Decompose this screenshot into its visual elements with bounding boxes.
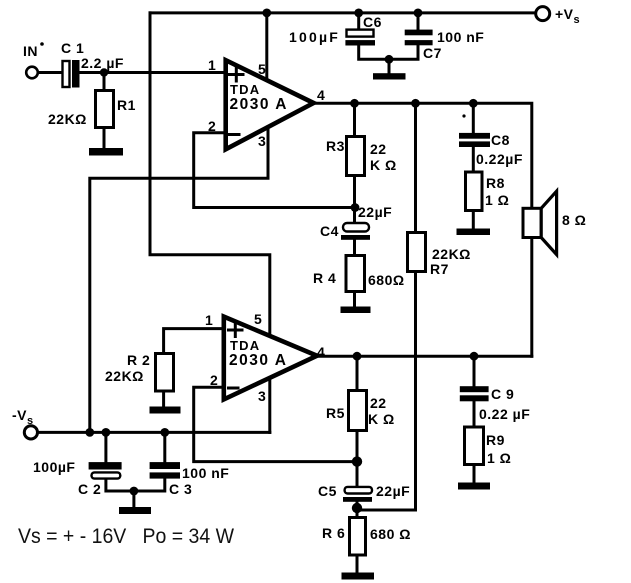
svg-text:8 Ω: 8 Ω (562, 212, 586, 228)
svg-text:R3: R3 (326, 138, 345, 154)
svg-text:22KΩ: 22KΩ (432, 246, 471, 262)
svg-text:C8: C8 (491, 132, 510, 148)
svg-text:2: 2 (208, 118, 216, 134)
svg-text:2030 A: 2030 A (230, 96, 288, 113)
svg-text:5: 5 (254, 311, 262, 327)
svg-text:C7: C7 (423, 45, 442, 61)
svg-text:680Ω: 680Ω (368, 272, 405, 288)
svg-text:22: 22 (370, 395, 387, 411)
svg-text:3: 3 (258, 133, 266, 149)
svg-text:C 2: C 2 (78, 481, 101, 497)
svg-text:1 Ω: 1 Ω (485, 192, 509, 208)
svg-text:1: 1 (208, 57, 216, 73)
svg-text:22: 22 (370, 141, 387, 157)
svg-text:R8: R8 (486, 175, 505, 191)
svg-text:5: 5 (258, 61, 266, 77)
svg-text:100 nF: 100 nF (437, 29, 484, 45)
svg-text:22KΩ: 22KΩ (48, 111, 87, 127)
svg-text:C4: C4 (320, 223, 339, 239)
svg-text:R 4: R 4 (313, 270, 336, 286)
svg-text:3: 3 (258, 388, 266, 404)
svg-text:C 1: C 1 (61, 40, 84, 56)
svg-text:R 2: R 2 (127, 352, 150, 368)
svg-text:1 Ω: 1 Ω (487, 450, 511, 466)
svg-text:22KΩ: 22KΩ (105, 368, 144, 384)
svg-text:1: 1 (205, 312, 213, 328)
svg-text:K Ω: K Ω (368, 411, 395, 427)
svg-text:0.22µF: 0.22µF (476, 151, 523, 167)
svg-text:C5: C5 (318, 483, 337, 499)
svg-text:R9: R9 (486, 432, 505, 448)
svg-text:C 3: C 3 (169, 481, 192, 497)
svg-text:22µF: 22µF (376, 483, 410, 499)
svg-text:R7: R7 (430, 261, 449, 277)
svg-text:2030 A: 2030 A (229, 352, 287, 369)
svg-text:0.22 µF: 0.22 µF (479, 406, 530, 422)
svg-text:4: 4 (317, 344, 325, 360)
svg-text:2.2 µF: 2.2 µF (81, 55, 124, 71)
svg-text:C 9: C 9 (491, 386, 514, 402)
svg-text:C6: C6 (363, 14, 382, 30)
svg-text:Vs = + - 16V Po = 34 W: Vs = + - 16V Po = 34 W (18, 525, 234, 548)
svg-text:100 nF: 100 nF (182, 465, 229, 481)
svg-text:R 6: R 6 (322, 525, 345, 541)
svg-text:2: 2 (210, 372, 218, 388)
svg-text:IN: IN (23, 43, 38, 59)
svg-text:680 Ω: 680 Ω (370, 526, 411, 542)
svg-text:100µF: 100µF (33, 459, 75, 475)
svg-text:TDA: TDA (230, 338, 260, 353)
svg-text:R5: R5 (326, 405, 345, 421)
svg-text:K Ω: K Ω (370, 157, 397, 173)
svg-text:4: 4 (317, 87, 325, 103)
svg-text:TDA: TDA (230, 82, 260, 97)
svg-text:100µF: 100µF (289, 29, 340, 45)
svg-text:R1: R1 (117, 97, 136, 113)
svg-text:22µF: 22µF (358, 204, 392, 220)
